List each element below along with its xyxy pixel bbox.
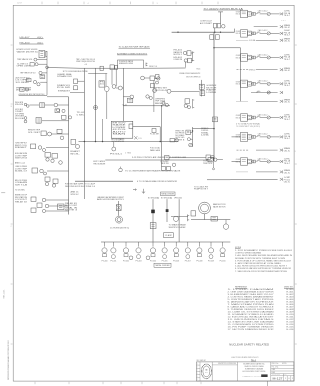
svg-text:E-403: E-403 — [287, 296, 294, 298]
svg-text:1: 1 — [285, 378, 286, 380]
svg-text:OPEN TORQUE SW NOTE 6: OPEN TORQUE SW NOTE 6 — [76, 61, 95, 63]
svg-text:POS SW: POS SW — [57, 87, 71, 89]
svg-text:1-EHC: 1-EHC — [284, 134, 290, 136]
svg-text:CBL 4C: CBL 4C — [284, 150, 290, 152]
svg-text:CLOSE LS: CLOSE LS — [17, 64, 28, 66]
svg-text:TD 2/5 SEC: TD 2/5 SEC — [15, 189, 25, 191]
svg-text:SPEED SET: SPEED SET — [155, 88, 167, 90]
svg-text:PV-401: PV-401 — [110, 261, 116, 263]
svg-text:PV-403: PV-403 — [136, 261, 142, 263]
svg-text:CR GXS: CR GXS — [236, 31, 240, 33]
svg-text:RESET: RESET — [155, 103, 165, 105]
svg-text:TB 4-7: TB 4-7 — [284, 35, 291, 37]
svg-text:CONTROL: CONTROL — [201, 130, 209, 132]
svg-text:SW 71-B: SW 71-B — [15, 184, 27, 186]
svg-text:REF: REF — [272, 372, 276, 374]
svg-text:CR GXS: CR GXS — [236, 115, 240, 117]
svg-text:401: 401 — [100, 84, 104, 86]
svg-text:86/ST COIL: 86/ST COIL — [15, 145, 27, 147]
svg-text:TB-6: TB-6 — [196, 68, 200, 70]
svg-text:PV-408: PV-408 — [196, 261, 202, 263]
svg-text:PUSH BTN: PUSH BTN — [15, 102, 23, 104]
svg-text:E-402: E-402 — [287, 294, 294, 296]
svg-text:NO 41: NO 41 — [236, 57, 241, 59]
svg-text:E-409: E-409 — [287, 311, 294, 313]
svg-text:TB 4-7: TB 4-7 — [284, 119, 291, 121]
svg-text:NO 41: NO 41 — [236, 33, 241, 35]
svg-text:EH GOV: EH GOV — [113, 122, 126, 124]
svg-text:0: 0 — [289, 378, 290, 380]
svg-text:E-407: E-407 — [287, 306, 294, 308]
svg-text:MOTOR 43: MOTOR 43 — [155, 90, 167, 92]
svg-text:PV-407: PV-407 — [185, 261, 191, 263]
svg-text:PV-400: PV-400 — [102, 261, 108, 263]
svg-text:SOL RESET: SOL RESET — [16, 82, 30, 84]
svg-text:PV-405: PV-405 — [162, 261, 168, 263]
svg-text:TRIP 12/OS: TRIP 12/OS — [155, 101, 165, 103]
svg-text:1-EHC: 1-EHC — [284, 54, 290, 56]
svg-text:E-414: E-414 — [287, 324, 294, 326]
svg-text:PV-4010: PV-4010 — [220, 261, 226, 263]
svg-text:E-415: E-415 — [287, 326, 294, 328]
svg-text:GOV 505: GOV 505 — [175, 137, 184, 139]
svg-text:TB 4-7: TB 4-7 — [284, 138, 291, 140]
svg-text:PUMP NOTE 7: PUMP NOTE 7 — [194, 189, 208, 191]
svg-text:RESET: RESET — [15, 147, 27, 149]
svg-text:CBL 4C: CBL 4C — [284, 102, 290, 104]
svg-text:NOTE 3: NOTE 3 — [65, 210, 77, 212]
svg-text:PS: PS — [100, 81, 104, 83]
svg-text:CBL 4C: CBL 4C — [284, 41, 290, 43]
svg-text:LOCKOUT: LOCKOUT — [15, 199, 27, 201]
svg-text:MOTOR OPER 43: MOTOR OPER 43 — [186, 77, 200, 79]
svg-text:SEE DWG M-128 SH 2 ZONE C-4: SEE DWG M-128 SH 2 ZONE C-4 — [65, 186, 95, 188]
svg-text:TD 62: TD 62 — [77, 112, 85, 114]
svg-text:E-410: E-410 — [287, 314, 294, 316]
svg-text:TURB TRIP RLY: TURB TRIP RLY — [15, 143, 27, 145]
svg-text:LOWER PB: LOWER PB — [174, 59, 183, 61]
svg-text:NO 41: NO 41 — [236, 117, 241, 119]
svg-text:1-EHC: 1-EHC — [284, 81, 290, 83]
svg-text:9. TURBINE VENDOR DWG INDEX: 9. TURBINE VENDOR DWG INDEX — [228, 309, 274, 311]
svg-text:SUPPLY HDR: SUPPLY HDR — [169, 227, 186, 229]
svg-text:REMOTE TRIP: REMOTE TRIP — [28, 130, 40, 132]
svg-text:SOL: SOL — [70, 153, 81, 155]
svg-text:LS OPEN: LS OPEN — [16, 80, 30, 82]
svg-text:THRU SILENCER: THRU SILENCER — [93, 163, 105, 165]
svg-text:E-401: E-401 — [287, 291, 294, 293]
svg-text:NO 41: NO 41 — [236, 84, 241, 86]
svg-text:43 POS: 43 POS — [113, 129, 126, 131]
svg-text:E-404: E-404 — [287, 299, 294, 301]
svg-text:NOTE 8: NOTE 8 — [175, 139, 184, 141]
svg-text:E-408: E-408 — [287, 309, 294, 311]
svg-text:CR GXS: CR GXS — [236, 11, 240, 13]
svg-text:1-EHC: 1-EHC — [284, 114, 290, 116]
svg-text:GOVERNOR: GOVERNOR — [206, 85, 216, 87]
svg-text:CR GXS: CR GXS — [236, 159, 240, 161]
svg-text:CBL 4C: CBL 4C — [284, 27, 290, 29]
svg-text:MS-1101: MS-1101 — [3, 289, 5, 298]
svg-text:1: 1 — [292, 378, 293, 380]
svg-text:PV-402: PV-402 — [123, 261, 129, 263]
svg-text:E-412: E-412 — [287, 319, 294, 321]
svg-text:EMERG STOP: EMERG STOP — [15, 195, 27, 197]
svg-text:TB 4-7: TB 4-7 — [284, 163, 291, 165]
svg-text:PS 63-1: PS 63-1 — [110, 153, 123, 155]
svg-text:TRIP THROTTLE VLV: TRIP THROTTLE VLV — [20, 73, 36, 75]
svg-text:B: B — [11, 106, 12, 108]
svg-text:E-411: E-411 — [287, 316, 294, 318]
svg-text:SOL 20/ET: SOL 20/ET — [28, 132, 40, 134]
svg-text:CR GXS: CR GXS — [236, 134, 240, 136]
svg-text:TURBINE: TURBINE — [203, 161, 213, 163]
svg-text:UNIT 1: UNIT 1 — [245, 376, 250, 378]
svg-text:PROJ. No.: PROJ. No. — [272, 363, 280, 365]
svg-text:1 TBG: 1 TBG — [125, 153, 131, 155]
svg-text:1PSV-402: 1PSV-402 — [174, 198, 182, 200]
svg-text:1C BKR 152-107: 1C BKR 152-107 — [200, 21, 212, 23]
svg-text:LOWER: LOWER — [113, 127, 126, 129]
svg-text:CR GXS: CR GXS — [236, 81, 240, 83]
svg-text:TB 4-7: TB 4-7 — [284, 59, 291, 61]
svg-text:M-127: M-127 — [273, 378, 284, 380]
svg-text:RESET LS: RESET LS — [149, 66, 157, 68]
svg-text:SIG FROM: SIG FROM — [175, 133, 185, 135]
svg-text:MOTOR: MOTOR — [206, 87, 216, 89]
svg-text:E-416: E-416 — [287, 329, 294, 331]
svg-text:LUBE OIL PRESS: LUBE OIL PRESS — [15, 166, 27, 168]
svg-text:HS-402: HS-402 — [161, 161, 169, 163]
svg-text:WDW 4-2: WDW 4-2 — [71, 194, 79, 196]
svg-text:GOV SPEED: GOV SPEED — [15, 113, 24, 115]
svg-text:TB 4-7: TB 4-7 — [284, 85, 291, 87]
svg-text:LOW TRIP: LOW TRIP — [15, 155, 27, 157]
svg-text:ENERGIZE OPEN: ENERGIZE OPEN — [119, 63, 133, 65]
svg-text:1 of 1 7: 1 of 1 7 — [17, 2, 22, 4]
svg-text:CBL 4C: CBL 4C — [284, 70, 290, 72]
svg-text:OPEN LIMIT: OPEN LIMIT — [17, 66, 31, 68]
svg-text:NUCLEAR SAFETY RELATED: NUCLEAR SAFETY RELATED — [229, 343, 270, 347]
svg-text:1-EHC: 1-EHC — [284, 158, 290, 160]
svg-text:CBL 4C: CBL 4C — [284, 172, 290, 174]
svg-text:LOWER: LOWER — [206, 92, 216, 94]
svg-text:TRIP SOL: TRIP SOL — [203, 163, 213, 165]
svg-text:E-413: E-413 — [287, 321, 294, 323]
svg-text:OVERSPEED: OVERSPEED — [155, 98, 165, 100]
svg-text:PV-409: PV-409 — [208, 261, 214, 263]
svg-text:4295: 4295 — [282, 363, 287, 365]
svg-text:CR GXS: CR GXS — [236, 55, 240, 57]
svg-text:SPEED: SPEED — [201, 128, 209, 130]
svg-text:1-EHC: 1-EHC — [284, 30, 290, 32]
svg-text:E-406: E-406 — [287, 304, 294, 306]
svg-text:HS-401: HS-401 — [174, 57, 183, 59]
svg-text:+LS: +LS — [84, 64, 87, 66]
svg-text:TB 4-7: TB 4-7 — [284, 15, 291, 17]
svg-text:TRIP PB: TRIP PB — [161, 163, 169, 165]
svg-text:BRG OIL PRESS: BRG OIL PRESS — [15, 180, 27, 182]
svg-text:TRIP + THROTTLE VLV LS: TRIP + THROTTLE VLV LS — [76, 59, 95, 61]
svg-text:PT 1414: PT 1414 — [284, 179, 291, 181]
svg-text:1C HORN (NOTE 5): 1C HORN (NOTE 5) — [110, 227, 130, 229]
svg-text:E-405: E-405 — [287, 301, 294, 303]
svg-text:16. FW PUMP TURBINE VENDOR: 16. FW PUMP TURBINE VENDOR — [228, 326, 274, 328]
svg-text:1-CMP: 1-CMP — [284, 177, 290, 179]
svg-text:CBL 2C: CBL 2C — [284, 182, 290, 184]
svg-text:PV-406: PV-406 — [173, 261, 179, 263]
svg-text:PC 401 SET: PC 401 SET — [150, 134, 159, 136]
svg-text:PV-404: PV-404 — [150, 261, 156, 263]
svg-text:E-400: E-400 — [287, 289, 294, 291]
svg-text:TO COMPUTER PT 1414 (NOTE 9): TO COMPUTER PT 1414 (NOTE 9) — [236, 126, 261, 128]
svg-text:SPEED CTRL: SPEED CTRL — [175, 130, 184, 132]
svg-text:SWITCH 63: SWITCH 63 — [15, 158, 27, 160]
svg-text:DWG: DWG — [284, 374, 287, 376]
svg-text:SHIELD: SHIELD — [249, 69, 256, 71]
svg-text:NO 41: NO 41 — [236, 14, 241, 16]
svg-text:P.O. 4 No.: P.O. 4 No. — [272, 366, 280, 368]
svg-text:LOW TRIP: LOW TRIP — [15, 168, 27, 170]
svg-text:HS-401: HS-401 — [174, 50, 183, 52]
svg-text:1-EHC: 1-EHC — [284, 11, 290, 13]
svg-text:5 SEC: 5 SEC — [77, 114, 85, 116]
svg-text:NOTE 2: NOTE 2 — [174, 54, 183, 56]
